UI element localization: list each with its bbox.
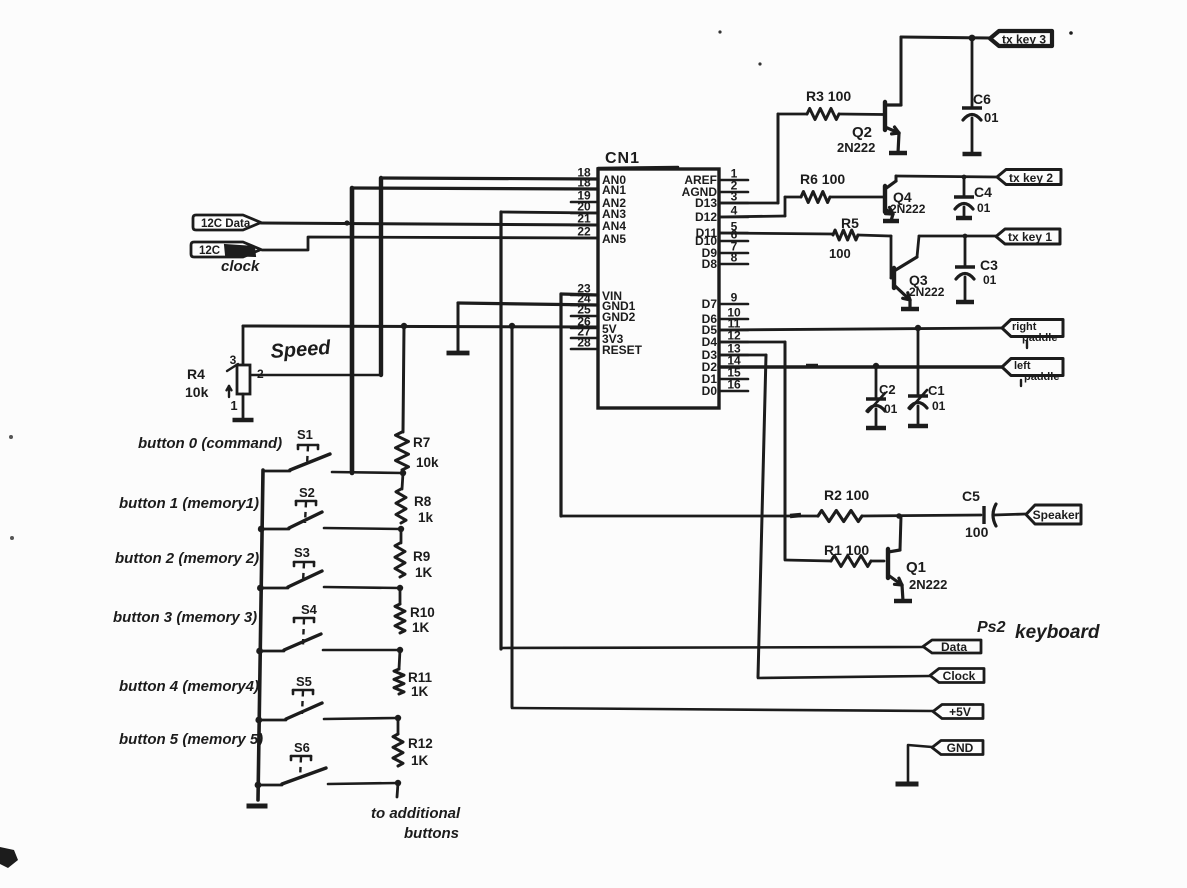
svg-text:C2: C2: [879, 382, 896, 397]
svg-text:22: 22: [577, 225, 591, 239]
svg-text:D8: D8: [702, 257, 718, 271]
svg-text:1K: 1K: [415, 565, 433, 580]
svg-text:Clock: Clock: [943, 669, 976, 683]
svg-text:3: 3: [731, 190, 738, 204]
svg-text:button 5 (memory 5): button 5 (memory 5): [119, 731, 263, 748]
svg-text:tx key 2: tx key 2: [1009, 171, 1053, 185]
svg-text:button 3 (memory 3): button 3 (memory 3): [113, 609, 257, 626]
svg-text:R2 100: R2 100: [824, 487, 869, 503]
svg-text:S4: S4: [301, 602, 318, 617]
svg-text:R4: R4: [187, 366, 205, 382]
svg-text:8: 8: [731, 251, 738, 265]
svg-text:01: 01: [984, 110, 998, 125]
svg-text:R11: R11: [408, 670, 433, 685]
svg-text:C6: C6: [973, 91, 991, 107]
svg-text:tx key 3: tx key 3: [1002, 33, 1046, 47]
svg-text:01: 01: [977, 201, 991, 215]
svg-text:D0: D0: [702, 384, 718, 398]
svg-text:S2: S2: [299, 485, 315, 500]
svg-text:R12: R12: [408, 736, 433, 751]
svg-text:D13: D13: [695, 196, 717, 210]
svg-text:clock: clock: [221, 258, 260, 275]
svg-text:28: 28: [577, 336, 591, 350]
svg-text:R10: R10: [410, 605, 435, 620]
svg-text:tx key 1: tx key 1: [1008, 230, 1052, 244]
svg-text:1K: 1K: [411, 684, 429, 699]
svg-text:R6 100: R6 100: [800, 171, 845, 187]
svg-text:RESET: RESET: [602, 343, 643, 357]
svg-text:S6: S6: [294, 740, 310, 755]
svg-text:R3 100: R3 100: [806, 88, 851, 104]
svg-text:paddle: paddle: [1024, 371, 1059, 383]
svg-text:S3: S3: [294, 545, 310, 560]
svg-text:AN5: AN5: [602, 232, 626, 246]
svg-text:D7: D7: [702, 297, 718, 311]
svg-text:16: 16: [727, 378, 741, 392]
svg-text:12C Data: 12C Data: [201, 218, 251, 230]
svg-text:R9: R9: [413, 549, 430, 564]
svg-text:12C: 12C: [199, 245, 220, 257]
svg-text:button 0 (command): button 0 (command): [138, 435, 282, 452]
svg-text:2N222: 2N222: [909, 285, 945, 299]
svg-text:D4: D4: [702, 335, 718, 349]
svg-text:01: 01: [983, 273, 997, 287]
svg-text:S1: S1: [297, 427, 313, 442]
svg-text:GND: GND: [947, 741, 974, 755]
svg-text:Q1: Q1: [906, 559, 926, 576]
svg-text:2N222: 2N222: [909, 577, 947, 592]
svg-text:R5: R5: [841, 215, 859, 231]
svg-text:Speaker: Speaker: [1033, 508, 1080, 522]
svg-text:1: 1: [230, 398, 237, 413]
svg-text:01: 01: [932, 399, 946, 413]
svg-text:AN1: AN1: [602, 183, 626, 197]
svg-text:button 1 (memory1): button 1 (memory1): [119, 495, 259, 512]
svg-text:S5: S5: [296, 674, 312, 689]
svg-text:keyboard: keyboard: [1015, 622, 1100, 643]
svg-text:2N222: 2N222: [837, 140, 875, 155]
svg-text:01: 01: [884, 402, 898, 416]
svg-text:10k: 10k: [185, 384, 209, 400]
svg-text:C3: C3: [980, 257, 998, 273]
svg-text:2N222: 2N222: [890, 202, 926, 216]
svg-text:R7: R7: [413, 435, 430, 450]
svg-text:CN1: CN1: [605, 150, 640, 167]
svg-text:Data: Data: [941, 640, 967, 654]
svg-text:100: 100: [829, 246, 851, 261]
svg-text:1K: 1K: [411, 753, 429, 768]
svg-text:2: 2: [257, 367, 264, 381]
svg-text:Q2: Q2: [852, 124, 872, 141]
svg-text:1K: 1K: [412, 620, 430, 635]
svg-text:100: 100: [965, 524, 989, 540]
svg-text:C1: C1: [928, 383, 945, 398]
svg-text:9: 9: [731, 291, 738, 305]
svg-text:R1 100: R1 100: [824, 542, 869, 558]
svg-text:C4: C4: [974, 184, 992, 200]
svg-text:Ps2: Ps2: [977, 619, 1006, 636]
svg-text:button 2 (memory 2): button 2 (memory 2): [115, 550, 259, 567]
svg-text:Speed: Speed: [270, 337, 332, 363]
svg-text:AN4: AN4: [602, 219, 626, 233]
svg-text:D12: D12: [695, 210, 717, 224]
svg-text:button 4 (memory4): button 4 (memory4): [119, 678, 259, 695]
svg-text:C5: C5: [962, 488, 980, 504]
svg-text:buttons: buttons: [404, 825, 459, 842]
svg-text:10k: 10k: [416, 455, 439, 470]
svg-text:+5V: +5V: [949, 705, 971, 719]
svg-text:R8: R8: [414, 494, 432, 509]
svg-text:1k: 1k: [418, 510, 434, 525]
svg-text:to additional: to additional: [371, 805, 461, 822]
